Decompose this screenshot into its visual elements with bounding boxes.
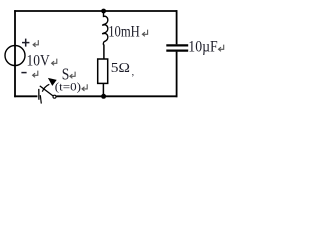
wire right upper (176, 10, 178, 44)
wire left (14, 10, 16, 97)
return after 10V (52, 59, 57, 66)
svg-text:10µF: 10µF (188, 38, 217, 55)
svg-text:10mH: 10mH (108, 23, 140, 40)
return after plus (33, 40, 38, 47)
switch S: fixed contact tick (38, 89, 40, 100)
switch arrowhead (48, 78, 57, 86)
return after minus (33, 71, 38, 78)
inductor L1 coil (103, 11, 108, 45)
node dot bottom (101, 94, 106, 99)
switch pivot circle (53, 95, 56, 98)
minus sign (21, 72, 26, 74)
switch blade (40, 86, 53, 96)
capacitor C1 bottom plate (166, 49, 188, 51)
wire bottom left segment (14, 95, 37, 97)
resistor bottom lead (102, 83, 104, 96)
wire top (14, 10, 177, 12)
svg-text:10V: 10V (27, 52, 51, 69)
switch lower tick (40, 95, 41, 103)
return after S (70, 72, 75, 79)
svg-text:,: , (132, 67, 135, 78)
return after 10mH (142, 30, 147, 37)
voltage source V1 circle (5, 46, 25, 66)
inductor lead to resistor (103, 45, 105, 60)
wire bottom right segment (56, 95, 177, 97)
return after (t=0) (82, 84, 87, 91)
svg-text:5Ω: 5Ω (111, 60, 130, 75)
switch motion arc (42, 84, 49, 91)
resistor R1 box (98, 59, 108, 83)
node dot top (101, 9, 106, 14)
svg-text:(t=0): (t=0) (55, 80, 81, 94)
capacitor C1 top plate (166, 44, 188, 46)
plus sign (22, 39, 29, 47)
return after 10uF (219, 45, 224, 52)
wire right lower (176, 52, 178, 98)
